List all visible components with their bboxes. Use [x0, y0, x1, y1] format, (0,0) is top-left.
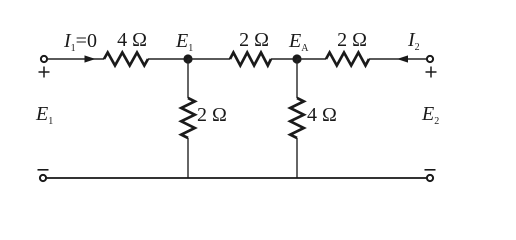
plus sign right	[426, 67, 437, 78]
wire shunt2 to bottom rail	[296, 138, 298, 178]
resistor R1 4ohm horizontal	[104, 53, 148, 66]
svg-text:4 Ω: 4 Ω	[117, 29, 147, 51]
bottom rail wire	[46, 177, 427, 179]
terminal top-left	[41, 56, 47, 62]
wire R3 to right terminal	[369, 58, 427, 60]
wire node E1 to R2	[188, 58, 230, 60]
svg-text:I1=0: I1=0	[63, 30, 97, 54]
svg-text:2 Ω: 2 Ω	[337, 29, 367, 51]
minus sign right	[425, 169, 436, 171]
arrowhead I2	[397, 55, 408, 62]
wire R2 to node EA	[271, 58, 297, 60]
wire top-left segment	[47, 58, 104, 60]
svg-text:2 Ω: 2 Ω	[197, 104, 227, 126]
resistor R2 2ohm horizontal	[230, 53, 271, 66]
minus sign left	[38, 169, 49, 171]
terminal top-right	[427, 56, 433, 62]
resistor 2ohm shunt vertical	[181, 98, 195, 138]
wire node EA to R3	[297, 58, 326, 60]
plus sign left	[39, 67, 50, 78]
node EA junction dot	[292, 54, 301, 63]
terminal bottom-left	[40, 175, 46, 181]
wire node E1 down	[187, 59, 189, 98]
arrowhead I1	[85, 55, 96, 62]
resistor R3 2ohm horizontal	[326, 53, 369, 66]
wire node EA down	[296, 59, 298, 98]
wire R1 to node E1	[148, 58, 188, 60]
svg-text:2 Ω: 2 Ω	[239, 29, 269, 51]
resistor 4ohm shunt vertical	[290, 98, 304, 138]
wire shunt1 to bottom rail	[187, 138, 189, 178]
node E1 junction dot	[183, 54, 192, 63]
terminal bottom-right	[427, 175, 433, 181]
svg-text:4 Ω: 4 Ω	[307, 104, 337, 126]
